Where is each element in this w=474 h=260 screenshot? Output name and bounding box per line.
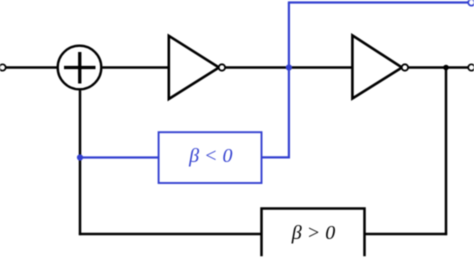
- block beta<0: [159, 132, 262, 183]
- blue junction node left: [77, 154, 83, 160]
- wire bottom right to beta>0 box: [365, 233, 448, 236]
- svg-text:β > 0: β > 0: [291, 222, 335, 244]
- wire blue to beta<0 box: [262, 156, 290, 158]
- blue junction node center: [286, 64, 292, 70]
- wire output node down: [445, 68, 448, 236]
- blue terminal top right: [468, 0, 474, 6]
- inverter bubble A2: [402, 64, 408, 70]
- block beta>0: [262, 209, 365, 257]
- output terminal: [468, 64, 474, 70]
- plus sign: [64, 52, 96, 84]
- amplifier A2: [352, 35, 402, 98]
- wire blue beta<0 box to left node: [80, 156, 159, 158]
- wire input to summer: [6, 66, 58, 69]
- wire A2 to output: [408, 66, 468, 69]
- wire summer to amplifier A1: [103, 66, 170, 69]
- wire blue top to terminal: [288, 1, 468, 3]
- inverter bubble A1: [219, 64, 225, 70]
- junction node output: [443, 65, 449, 71]
- svg-text:β < 0: β < 0: [188, 145, 232, 167]
- summer U1: [58, 46, 102, 90]
- wire beta>0 box to bottom left: [79, 233, 262, 236]
- wire blue node down from top: [288, 3, 290, 159]
- amplifier A1: [169, 36, 219, 99]
- wire A1 to A2: [225, 66, 353, 69]
- wire bottom left up to summer: [79, 90, 82, 235]
- input terminal: [0, 64, 6, 70]
